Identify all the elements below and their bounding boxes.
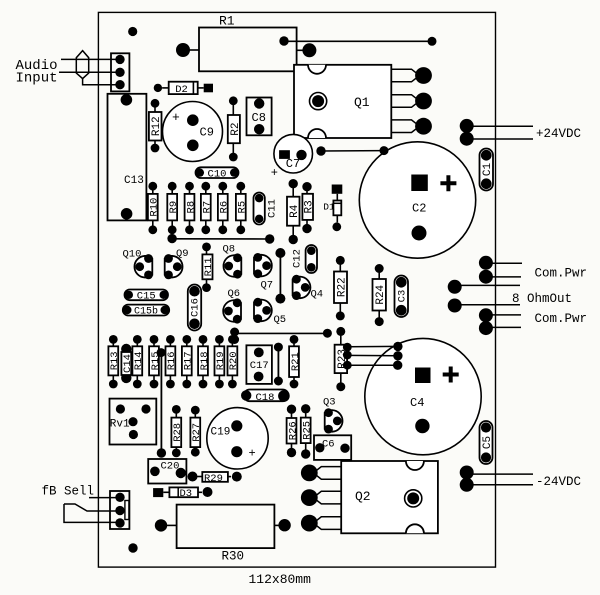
resistor R16 [166,335,179,388]
label 8 OhmOut [512,292,572,306]
via pad wire end2 [265,234,274,243]
svg-text:Q6: Q6 [228,288,241,300]
svg-text:R1: R1 [219,14,235,29]
label Q9 [176,248,189,260]
svg-text:C18: C18 [256,392,275,404]
resistor R13 [108,335,121,388]
wire Com.Pwr bot 2 [492,326,521,328]
junction pad under R9 [167,234,176,243]
label -24VDC [536,475,581,489]
svg-text:+: + [271,166,278,180]
pad -24VDC 2 [460,478,474,492]
svg-text:R24: R24 [375,284,387,304]
transistor Q8 [223,253,241,278]
resistor R12 [149,99,163,153]
svg-text:Q7: Q7 [261,280,274,292]
capacitor C5 [480,421,494,464]
capacitor C7 [271,134,313,179]
svg-text:C13: C13 [124,175,144,187]
transistor Q4 [292,275,310,300]
capacitor C10 [196,167,239,180]
svg-text:R4: R4 [289,204,301,218]
label Com.Pwr bot [535,312,588,326]
wire row2 top [235,332,328,334]
resistor R24 [373,264,388,326]
svg-text:D2: D2 [175,84,188,96]
wire R23 b [347,354,398,356]
svg-text:R14: R14 [133,351,145,370]
diode D1 [323,185,342,232]
capacitor C18 [241,390,290,404]
transistor Q5 [253,298,271,323]
capacitor C16 [188,285,202,331]
wire 8 OhmOut 2 [461,304,520,306]
wire +24VDC 1 [473,125,533,127]
svg-text:D1: D1 [323,202,335,213]
svg-text:R5: R5 [237,201,249,214]
label Q3 [323,397,336,409]
svg-text:Input: Input [16,70,58,86]
svg-text:R3: R3 [304,200,316,213]
svg-text:C16: C16 [190,298,202,317]
via pad top-left [128,27,137,36]
label Q5 [274,314,287,326]
svg-text:Com.Pwr: Com.Pwr [535,267,588,281]
trimmer Rv1 [110,399,157,445]
pad Com.Pwr top 2 [479,270,493,284]
label Q6 [228,288,241,300]
svg-text:C5: C5 [482,436,494,449]
transistor Q2 [301,461,438,533]
wire under row1 [172,238,270,240]
label Q4 [311,289,324,301]
resistor R17 [182,335,195,388]
svg-text:Q5: Q5 [274,314,287,326]
label Q10 [123,249,142,261]
svg-text:C20: C20 [161,460,180,472]
label Audio Input [16,58,58,87]
wire C17 right [274,343,283,386]
capacitor C9 [163,102,223,162]
wire node to C2 [316,146,388,156]
capacitor C4 [365,338,481,454]
capacitor C8 [247,98,272,136]
svg-text:R17: R17 [183,351,195,370]
svg-text:+24VDC: +24VDC [536,127,581,141]
svg-text:R18: R18 [199,351,211,370]
transistor Q1 [294,65,432,138]
svg-text:Q8: Q8 [223,244,236,256]
svg-text:Q1: Q1 [354,95,370,110]
label Q7 [261,280,274,292]
capacitor C3 [395,276,409,318]
resistor R22 [334,256,348,321]
svg-text:Q2: Q2 [355,489,371,504]
svg-text:C15: C15 [137,291,156,303]
resistor R15 [149,335,162,388]
transistor Q9 [164,254,182,279]
pad 8 OhmOut 1 [448,280,462,294]
resistor R23 [335,327,349,391]
pad Com.Pwr top 1 [479,256,493,270]
svg-text:R29: R29 [204,473,223,485]
svg-text:C11: C11 [267,199,279,218]
wire vertical node [275,248,285,304]
resistor R11 [202,243,215,293]
resistor R4 [287,179,301,244]
svg-text:C4: C4 [410,396,424,410]
svg-text:D3: D3 [180,488,193,500]
svg-text:8 OhmOut: 8 OhmOut [512,292,572,306]
resistor R28 [171,405,184,457]
connector J2 header [110,491,129,529]
fB plug symbol [64,504,120,522]
via pad wire row2 [323,329,332,338]
svg-text:Q3: Q3 [323,397,336,409]
wire vertical long [160,353,162,453]
transistor Q7 [253,253,271,278]
label +24VDC [536,127,581,141]
svg-text:C14: C14 [122,354,134,373]
svg-text:R19: R19 [215,351,227,370]
capacitor C11 [254,193,279,225]
wire Com.Pwr top 1 [492,262,522,264]
capacitor C17 [246,345,272,384]
resistor R20 [228,335,241,388]
pad -24VDC 1 [460,466,474,480]
resistor R10 [148,182,161,234]
wire 8 OhmOut 1 [461,284,520,286]
label Q8 [223,244,236,256]
svg-text:C17: C17 [250,360,269,372]
via pad wire end [428,37,437,46]
svg-text:C1: C1 [482,163,494,177]
wire R23 a [347,345,398,347]
resistor R7 [201,182,214,234]
wire Com.Pwr bot 1 [492,314,521,316]
svg-text:R25: R25 [301,421,313,440]
wire R1 to node [284,40,432,42]
svg-text:-24VDC: -24VDC [536,475,581,489]
wire +24VDC 2 [473,138,533,140]
wire Com.Pwr top 2 [492,276,521,278]
svg-text:+: + [172,110,180,125]
resistor R2 [228,96,242,161]
resistor R25 [301,404,314,459]
connector J1 audio header [111,53,129,91]
svg-text:R22: R22 [336,277,348,297]
svg-text:C7: C7 [286,157,300,171]
capacitor C13 [108,94,147,221]
capacitor C15 [125,290,169,303]
svg-text:R11: R11 [203,257,215,276]
diode D3 [153,487,212,500]
svg-text:R10: R10 [149,198,161,217]
wire R23 c [347,364,397,366]
svg-text:R16: R16 [166,351,178,370]
transistor Q10 [134,254,152,279]
via pad below J2 [128,543,137,552]
wire -24VDC 1 [473,473,533,475]
transistor Q3 [324,408,342,433]
capacitor C15b [123,305,169,318]
resistor R5 [236,182,249,234]
svg-text:C9: C9 [200,126,214,140]
svg-text:C2: C2 [412,202,426,216]
diode D2 [154,82,213,97]
svg-text:+: + [249,447,256,461]
svg-text:R9: R9 [168,201,180,214]
svg-text:R26: R26 [287,421,299,440]
pad +24VDC 2 [460,132,474,146]
resistor R3 [302,182,315,233]
resistor R26 [287,405,300,458]
node pair left [230,328,239,345]
node R23 right pads [343,343,352,370]
capacitor C20 [148,459,186,484]
svg-text:R7: R7 [202,201,214,214]
svg-text:Rv1: Rv1 [110,419,130,431]
transistor Q6 [223,298,241,323]
svg-text:C12: C12 [292,249,304,268]
capacitor C6 [314,435,351,460]
svg-text:R20: R20 [228,351,240,370]
svg-text:Q4: Q4 [311,289,324,301]
capacitor C14 [121,344,134,383]
resistor R27 [190,406,203,457]
capacitor C12 [292,245,318,273]
svg-text:R28: R28 [172,423,184,442]
resistor R30 [155,505,291,564]
wire fB line1 [89,497,120,499]
svg-text:C10: C10 [208,168,227,180]
resistor R18 [198,335,211,388]
node C4 left pads [393,342,403,370]
svg-text:R6: R6 [219,201,231,214]
svg-text:C19: C19 [211,427,231,439]
resistor R19 [215,335,228,388]
board outline [98,12,495,567]
wire audio line2 [59,71,120,73]
svg-text:R21: R21 [290,352,302,371]
pad Com.Pwr bot 1 [479,308,493,322]
svg-text:R13: R13 [109,351,121,370]
resistor R8 [185,182,198,234]
junction pad R15 top [157,348,166,357]
resistor R9 [167,182,180,234]
resistor R21 [289,335,302,388]
resistor R14 [132,335,145,388]
svg-text:C3: C3 [397,290,409,303]
svg-text:R12: R12 [151,116,163,136]
svg-text:R30: R30 [222,549,245,563]
pad +24VDC 1 [460,119,474,133]
via pad bottom of long wire [157,448,166,457]
label 112x80mm [249,572,312,587]
label Com.Pwr top [535,267,588,281]
label fB Sell [42,484,95,498]
resistor R1 [176,14,316,72]
svg-text:Com.Pwr: Com.Pwr [535,312,588,326]
svg-text:R2: R2 [230,122,242,135]
svg-text:C15b: C15b [134,306,158,318]
wire audio line1 [61,58,120,60]
capacitor C19 [207,408,268,469]
svg-text:112x80mm: 112x80mm [249,572,312,587]
svg-text:R27: R27 [191,423,203,442]
resistor R6 [218,182,231,234]
wire -24VDC 2 [473,484,533,486]
audio input plug symbol [76,51,120,85]
svg-text:fB Sell: fB Sell [42,484,95,498]
capacitor C1 [480,149,495,191]
capacitor C2 [359,142,475,258]
svg-text:C6: C6 [322,439,335,451]
svg-text:C8: C8 [252,111,266,125]
svg-text:R8: R8 [185,201,197,214]
pad Com.Pwr bot 2 [479,321,493,335]
resistor R29 [188,472,242,485]
pad 8 OhmOut 2 [448,299,462,313]
